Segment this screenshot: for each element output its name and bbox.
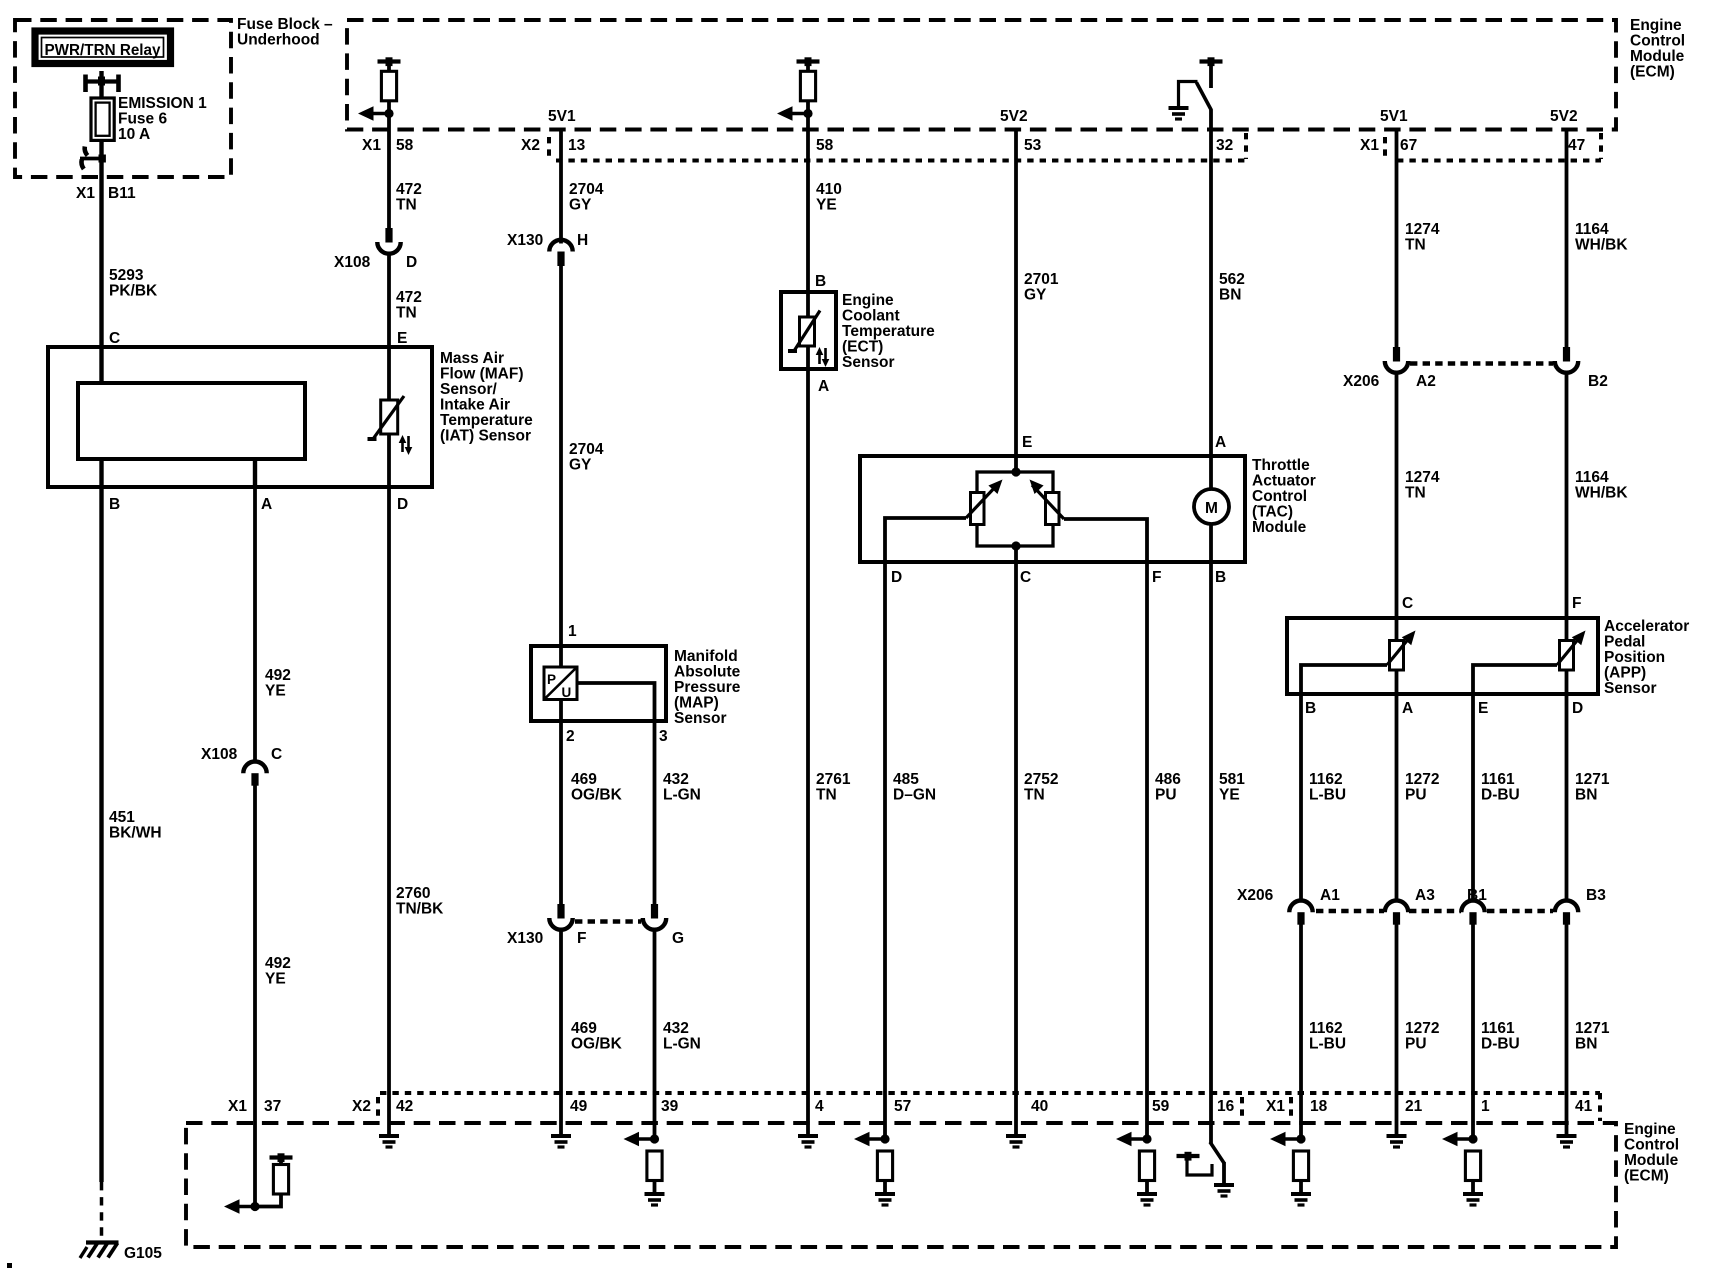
pin X2 13 labels xyxy=(521,137,586,154)
wire 2 MAF A down 492 YE xyxy=(253,487,257,761)
pin 59 label xyxy=(1152,1098,1170,1115)
wire A inside MAF xyxy=(253,459,257,487)
svg-text:U: U xyxy=(562,685,572,700)
wire 12 5V1 label right xyxy=(1380,108,1408,125)
svg-text:X1: X1 xyxy=(228,1098,247,1115)
svg-text:L-GN: L-GN xyxy=(663,787,701,804)
pin 37 internal pullup branch xyxy=(255,1153,293,1206)
pin 39 internal arrow resistor ground xyxy=(624,1132,665,1205)
connector X130 G xyxy=(643,904,666,930)
svg-text:A3: A3 xyxy=(1415,887,1435,904)
svg-text:E: E xyxy=(1022,434,1032,451)
wire IAT to MAF bottom xyxy=(387,434,391,487)
svg-text:57: 57 xyxy=(894,1098,911,1115)
svg-text:47: 47 xyxy=(1568,137,1585,154)
wire 6 ECT A down 2761 TN xyxy=(806,369,810,1123)
svg-text:WH/BK: WH/BK xyxy=(1575,485,1628,502)
pin 53 label xyxy=(1024,137,1042,154)
svg-text:Control: Control xyxy=(1630,33,1685,50)
wire 11 APP B down 1162 L-BU xyxy=(1299,694,1303,900)
svg-text:486: 486 xyxy=(1155,771,1181,788)
wire 11 below X206 A1 xyxy=(1299,925,1303,1124)
wire 6 410 YE xyxy=(806,130,810,293)
wire 12 below X206 A3 xyxy=(1395,925,1399,1124)
wire label 1161 D-BU lower xyxy=(1481,1020,1520,1053)
pin 37 internal arrow xyxy=(224,1199,260,1213)
connector X206 A2 xyxy=(1385,347,1408,373)
TAC motor M xyxy=(1194,456,1229,562)
svg-text:X206: X206 xyxy=(1343,373,1380,390)
svg-text:Engine: Engine xyxy=(1624,1121,1676,1138)
svg-text:X1: X1 xyxy=(76,185,95,202)
IAT airflow arrows xyxy=(399,435,413,455)
svg-text:472: 472 xyxy=(396,289,422,306)
pin 39 label xyxy=(661,1098,679,1115)
svg-text:5V2: 5V2 xyxy=(1550,108,1578,125)
pin 42 labels xyxy=(352,1098,413,1115)
wire label 2704 GY lower xyxy=(569,441,604,474)
TAC pot left xyxy=(885,475,1007,562)
wire 4 MAP 2 down 469 OG/BK xyxy=(559,721,563,904)
APP pot right xyxy=(1473,618,1590,694)
wire label 432 L-GN lower xyxy=(663,1020,701,1053)
TAC bridge square xyxy=(977,456,1053,562)
wire 3 MAF D down 2760 TN/BK xyxy=(387,487,391,1123)
svg-text:A: A xyxy=(1215,434,1226,451)
pin 37 labels xyxy=(228,1098,281,1115)
svg-text:(ECM): (ECM) xyxy=(1630,64,1675,81)
svg-text:X2: X2 xyxy=(521,137,540,154)
svg-text:X130: X130 xyxy=(507,930,543,947)
pin 41 label xyxy=(1575,1098,1593,1115)
fuse F6 EMISSION 1 10A xyxy=(91,98,114,140)
svg-text:1: 1 xyxy=(1481,1098,1490,1115)
svg-text:2761: 2761 xyxy=(816,771,851,788)
pin 49 label xyxy=(570,1098,588,1115)
wire relay to fuse xyxy=(99,71,103,98)
ECM internal pullup for IAT pin 58 xyxy=(358,57,401,129)
wire label 486 PU xyxy=(1155,771,1181,804)
APP label xyxy=(1604,618,1689,697)
ECT airflow arrows xyxy=(816,347,830,367)
svg-text:432: 432 xyxy=(663,771,689,788)
wire 14 below X206 B3 xyxy=(1565,925,1569,1124)
svg-text:P: P xyxy=(547,672,556,687)
svg-text:Throttle: Throttle xyxy=(1252,457,1310,474)
svg-text:432: 432 xyxy=(663,1020,689,1037)
svg-text:PU: PU xyxy=(1405,787,1427,804)
pin labels B A D xyxy=(109,496,408,513)
pin 21 internal ground xyxy=(1387,1123,1407,1147)
pin 49 internal ground xyxy=(551,1123,571,1147)
ECM top label xyxy=(1630,17,1685,81)
svg-text:A: A xyxy=(261,496,272,513)
svg-text:451: 451 xyxy=(109,809,135,826)
svg-text:1162: 1162 xyxy=(1309,771,1343,788)
svg-text:TN: TN xyxy=(1405,237,1426,254)
svg-text:2704: 2704 xyxy=(569,181,604,198)
X130 F G labels xyxy=(507,930,684,947)
svg-text:13: 13 xyxy=(568,137,586,154)
svg-text:Actuator: Actuator xyxy=(1252,473,1316,490)
svg-text:1272: 1272 xyxy=(1405,1020,1439,1037)
svg-text:X108: X108 xyxy=(201,746,238,763)
ECT label xyxy=(842,292,935,371)
svg-text:Pressure: Pressure xyxy=(674,679,741,696)
svg-text:PK/BK: PK/BK xyxy=(109,283,158,300)
connector link dashes X130 xyxy=(575,919,641,924)
wire 14 1164 WH/BK to APP F xyxy=(1565,373,1569,618)
wire 2 below X108 C xyxy=(253,785,257,1123)
svg-text:472: 472 xyxy=(396,181,422,198)
wire 12 APP A down 1272 PU xyxy=(1395,694,1399,900)
svg-text:1164: 1164 xyxy=(1575,221,1609,238)
pin 18 internal arrow resistor ground xyxy=(1270,1123,1311,1205)
svg-text:49: 49 xyxy=(570,1098,588,1115)
connector link dashes X206 bottom xyxy=(1316,909,1553,914)
svg-text:Module: Module xyxy=(1624,1152,1679,1169)
ECM top dashed box xyxy=(347,20,1616,130)
svg-text:1161: 1161 xyxy=(1481,771,1515,788)
ECM bottom label xyxy=(1624,1121,1679,1185)
connector X108 C xyxy=(243,762,266,786)
svg-text:1161: 1161 xyxy=(1481,1020,1515,1037)
wire label 1164 WH/BK lower xyxy=(1575,469,1628,502)
svg-text:D: D xyxy=(397,496,408,513)
connector X1 dotted boundary top right xyxy=(1385,133,1601,161)
svg-text:TN: TN xyxy=(1405,485,1426,502)
wire 3 472 TN upper xyxy=(387,130,391,229)
svg-text:53: 53 xyxy=(1024,137,1042,154)
MAP P/U transducer xyxy=(544,667,577,700)
svg-text:1: 1 xyxy=(568,623,577,640)
svg-text:A1: A1 xyxy=(1320,887,1340,904)
svg-text:1271: 1271 xyxy=(1575,771,1610,788)
pin 41 internal ground xyxy=(1557,1123,1577,1147)
wire label 451 BK/WH xyxy=(109,809,162,842)
svg-text:469: 469 xyxy=(571,1020,597,1037)
wire 4 to MAP xyxy=(559,265,563,667)
svg-text:Manifold: Manifold xyxy=(674,648,738,665)
svg-text:Control: Control xyxy=(1252,488,1307,505)
wire label 2704 GY upper xyxy=(569,181,604,214)
svg-text:18: 18 xyxy=(1310,1098,1328,1115)
svg-text:Coolant: Coolant xyxy=(842,308,900,325)
wire 4 below X130 F xyxy=(559,930,563,1123)
svg-text:1274: 1274 xyxy=(1405,221,1440,238)
svg-text:BK/WH: BK/WH xyxy=(109,825,162,842)
svg-text:(APP): (APP) xyxy=(1604,665,1646,682)
svg-text:Sensor/: Sensor/ xyxy=(440,381,498,398)
connector X108 D xyxy=(377,228,400,254)
pin 37 internal wire xyxy=(253,1123,257,1207)
svg-text:2: 2 xyxy=(566,728,575,745)
MAP internal wire pin3 xyxy=(577,683,655,721)
wire label 1272 PU lower xyxy=(1405,1020,1439,1053)
X206 bottom labels xyxy=(1237,887,1606,904)
wire label 410 YE xyxy=(816,181,842,214)
wire label 2761 TN xyxy=(816,771,851,804)
wire 14 1164 WH/BK from ECM xyxy=(1565,130,1569,348)
wire label 469 OG/BK upper xyxy=(571,771,623,804)
wire label 1271 BN upper xyxy=(1575,771,1610,804)
svg-text:59: 59 xyxy=(1152,1098,1170,1115)
pin 40 label xyxy=(1031,1098,1048,1115)
svg-text:2752: 2752 xyxy=(1024,771,1058,788)
svg-text:2704: 2704 xyxy=(569,441,604,458)
wire E inside MAF to IAT xyxy=(387,347,391,402)
svg-text:Sensor: Sensor xyxy=(1604,680,1657,697)
svg-text:M: M xyxy=(1205,500,1218,517)
svg-text:TN/BK: TN/BK xyxy=(396,901,444,918)
fuse block internal hook xyxy=(80,147,106,170)
connector X206 A1 xyxy=(1289,901,1312,925)
svg-text:1162: 1162 xyxy=(1309,1020,1343,1037)
page dot xyxy=(7,1263,12,1268)
svg-text:1272: 1272 xyxy=(1405,771,1439,788)
MAF label xyxy=(440,350,533,445)
svg-text:B2: B2 xyxy=(1588,373,1608,390)
pin 57 internal arrow resistor ground xyxy=(854,1132,895,1205)
pin 4 internal ground xyxy=(798,1123,818,1147)
pin 47 label xyxy=(1568,137,1585,154)
svg-text:1271: 1271 xyxy=(1575,1020,1610,1037)
Fuse Block - Underhood dashed box xyxy=(15,20,231,177)
wire label 1162 L-BU lower xyxy=(1309,1020,1346,1053)
svg-text:X1: X1 xyxy=(1266,1098,1285,1115)
svg-text:EMISSION 1: EMISSION 1 xyxy=(118,95,207,112)
svg-text:B: B xyxy=(815,273,826,290)
svg-text:3: 3 xyxy=(659,728,668,745)
wire 14 APP D down 1271 BN xyxy=(1565,694,1569,900)
svg-text:C: C xyxy=(271,746,282,763)
G105 label xyxy=(124,1245,162,1262)
wire label 2752 TN xyxy=(1024,771,1058,804)
svg-text:B: B xyxy=(109,496,120,513)
svg-text:H: H xyxy=(577,232,588,249)
APP pin labels B A E D xyxy=(1305,700,1583,717)
svg-text:WH/BK: WH/BK xyxy=(1575,237,1628,254)
svg-text:41: 41 xyxy=(1575,1098,1593,1115)
svg-text:5V2: 5V2 xyxy=(1000,108,1028,125)
svg-text:562: 562 xyxy=(1219,271,1245,288)
svg-text:32: 32 xyxy=(1216,137,1233,154)
svg-text:469: 469 xyxy=(571,771,597,788)
svg-text:F: F xyxy=(1152,569,1161,586)
wire 14 5V2 label right xyxy=(1550,108,1578,125)
svg-text:Module: Module xyxy=(1630,48,1685,65)
wire label 1274 TN upper xyxy=(1405,221,1440,254)
svg-text:42: 42 xyxy=(396,1098,413,1115)
svg-text:Absolute: Absolute xyxy=(674,664,741,681)
svg-text:TN: TN xyxy=(816,787,837,804)
svg-text:4: 4 xyxy=(815,1098,824,1115)
dashed wire to G105 xyxy=(100,1182,104,1240)
connector X130 F xyxy=(549,904,572,930)
wire label 472 TN lower xyxy=(396,289,422,322)
svg-text:Fuse Block –: Fuse Block – xyxy=(237,16,333,33)
pin E label TAC xyxy=(1022,434,1032,451)
pin A label TAC xyxy=(1215,434,1226,451)
svg-text:D-BU: D-BU xyxy=(1481,1036,1520,1053)
pin 2 3 labels xyxy=(566,728,668,745)
wire 8 2701 GY to TAC E xyxy=(1014,130,1018,457)
wire 1 MAF B down 451 BK/WH xyxy=(99,487,103,1182)
pin 1 label xyxy=(568,623,577,640)
svg-text:BN: BN xyxy=(1575,787,1597,804)
svg-text:Module: Module xyxy=(1252,519,1307,536)
ECM internal ground switch pin 32 xyxy=(1169,57,1223,129)
svg-text:C: C xyxy=(1402,595,1413,612)
svg-text:PU: PU xyxy=(1405,1036,1427,1053)
wire 10 562 BN to TAC A xyxy=(1209,130,1213,457)
wire label 492 YE lower xyxy=(265,955,291,988)
svg-text:492: 492 xyxy=(265,955,291,972)
svg-text:C: C xyxy=(1020,569,1031,586)
svg-text:E: E xyxy=(1478,700,1488,717)
svg-text:X2: X2 xyxy=(352,1098,371,1115)
connector link dashes X206 top xyxy=(1410,361,1553,366)
svg-text:B3: B3 xyxy=(1586,887,1606,904)
svg-text:GY: GY xyxy=(1024,287,1047,304)
svg-text:40: 40 xyxy=(1031,1098,1048,1115)
wire label 469 OG/BK lower xyxy=(571,1020,623,1053)
svg-text:D: D xyxy=(891,569,902,586)
svg-text:21: 21 xyxy=(1405,1098,1423,1115)
fuse label xyxy=(118,95,207,143)
svg-text:L-GN: L-GN xyxy=(663,1036,701,1053)
svg-text:A2: A2 xyxy=(1416,373,1436,390)
pin X1 67 labels xyxy=(1360,137,1417,154)
svg-text:5V1: 5V1 xyxy=(548,108,576,125)
svg-text:58: 58 xyxy=(396,137,414,154)
svg-text:GY: GY xyxy=(569,457,592,474)
MAP label xyxy=(674,648,741,727)
svg-text:2701: 2701 xyxy=(1024,271,1059,288)
MAF inner block xyxy=(78,383,305,459)
svg-text:A: A xyxy=(1402,700,1413,717)
pin A label ECT xyxy=(818,378,829,395)
connector dotted boundary bottom xyxy=(378,1093,1600,1121)
TAC pin labels D C F B xyxy=(891,569,1226,586)
wire label 1164 WH/BK upper xyxy=(1575,221,1628,254)
pin 21 label xyxy=(1405,1098,1423,1115)
svg-text:TN: TN xyxy=(396,197,417,214)
pin 16 internal driver switch ground xyxy=(1177,1142,1235,1196)
svg-text:58: 58 xyxy=(816,137,834,154)
svg-text:Underhood: Underhood xyxy=(237,32,320,49)
svg-text:Accelerator: Accelerator xyxy=(1604,618,1689,635)
APP pot left xyxy=(1301,618,1420,694)
svg-text:(TAC): (TAC) xyxy=(1252,504,1293,521)
svg-text:Temperature: Temperature xyxy=(440,412,533,429)
svg-text:D: D xyxy=(406,254,417,271)
svg-text:TN: TN xyxy=(396,305,417,322)
svg-text:(ECT): (ECT) xyxy=(842,339,883,356)
svg-text:L-BU: L-BU xyxy=(1309,787,1346,804)
wire label 432 L-GN upper xyxy=(663,771,701,804)
connector X206 B3 xyxy=(1555,901,1578,925)
pin C label xyxy=(109,330,120,347)
wire 13 APP E down 1161 D-BU xyxy=(1471,694,1475,900)
svg-text:Fuse 6: Fuse 6 xyxy=(118,111,167,128)
ECM internal pullup for ECT pin 58 xyxy=(777,57,820,129)
pin 58 label xyxy=(816,137,834,154)
MAP internal wire pin2 xyxy=(559,700,563,722)
ground G105 chassis xyxy=(80,1243,119,1259)
svg-text:PU: PU xyxy=(1155,787,1177,804)
svg-text:D-BU: D-BU xyxy=(1481,787,1520,804)
wire 8 5V2 label xyxy=(1000,108,1028,125)
svg-text:F: F xyxy=(1572,595,1581,612)
wire 13 below X206 B1 xyxy=(1471,925,1475,1124)
svg-text:67: 67 xyxy=(1400,137,1417,154)
pin 59 internal arrow resistor ground xyxy=(1116,1132,1157,1205)
svg-text:Control: Control xyxy=(1624,1137,1679,1154)
wire 10 TAC B down 581 YE xyxy=(1209,562,1213,1144)
svg-text:2760: 2760 xyxy=(396,885,430,902)
X108 C labels xyxy=(201,746,282,763)
pin 1 internal arrow resistor ground xyxy=(1442,1123,1483,1205)
connector label X1 B11 xyxy=(76,185,136,202)
svg-text:X130: X130 xyxy=(507,232,543,249)
wire 5 MAP 3 down 432 L-GN xyxy=(653,721,657,904)
TAC pot right xyxy=(1025,475,1147,562)
svg-text:D–GN: D–GN xyxy=(893,787,936,804)
svg-text:TN: TN xyxy=(1024,787,1045,804)
svg-text:Pedal: Pedal xyxy=(1604,634,1645,651)
svg-text:BN: BN xyxy=(1575,1036,1597,1053)
wire label 2760 TN/BK xyxy=(396,885,444,918)
wire label 1271 BN lower xyxy=(1575,1020,1610,1053)
svg-text:X108: X108 xyxy=(334,254,371,271)
svg-text:X206: X206 xyxy=(1237,887,1274,904)
svg-text:X1: X1 xyxy=(362,137,381,154)
ECM bottom dashed box xyxy=(186,1123,1616,1247)
wire label 562 BN xyxy=(1219,271,1245,304)
TAC module box xyxy=(860,456,1245,562)
svg-text:Sensor: Sensor xyxy=(674,710,727,727)
wire B inside MAF xyxy=(99,459,103,487)
connector X206 B1 xyxy=(1461,901,1484,925)
wire 4 from ECM xyxy=(559,130,563,244)
IAT thermistor xyxy=(368,396,405,439)
svg-text:F: F xyxy=(577,930,586,947)
svg-text:39: 39 xyxy=(661,1098,679,1115)
pin 16 label xyxy=(1217,1098,1235,1115)
connector X130 H xyxy=(549,240,572,266)
Fuse Block label xyxy=(237,16,333,49)
pin X1 18 labels xyxy=(1266,1098,1328,1115)
svg-text:(IAT) Sensor: (IAT) Sensor xyxy=(440,428,531,445)
svg-text:(MAP): (MAP) xyxy=(674,695,719,712)
svg-text:D: D xyxy=(1572,700,1583,717)
pin 40 internal ground xyxy=(1006,1123,1026,1147)
MAP sensor box xyxy=(531,646,666,721)
svg-text:Engine: Engine xyxy=(842,292,894,309)
svg-text:485: 485 xyxy=(893,771,919,788)
relay K PWR/TRN Relay xyxy=(35,31,171,64)
wire 4 5V1 label xyxy=(548,108,576,125)
svg-text:OG/BK: OG/BK xyxy=(571,1036,623,1053)
svg-text:G: G xyxy=(672,930,684,947)
svg-text:37: 37 xyxy=(264,1098,281,1115)
svg-text:X1: X1 xyxy=(1360,137,1379,154)
svg-text:C: C xyxy=(109,330,120,347)
svg-text:Engine: Engine xyxy=(1630,17,1682,34)
wire label 2701 GY xyxy=(1024,271,1059,304)
svg-text:1164: 1164 xyxy=(1575,469,1609,486)
